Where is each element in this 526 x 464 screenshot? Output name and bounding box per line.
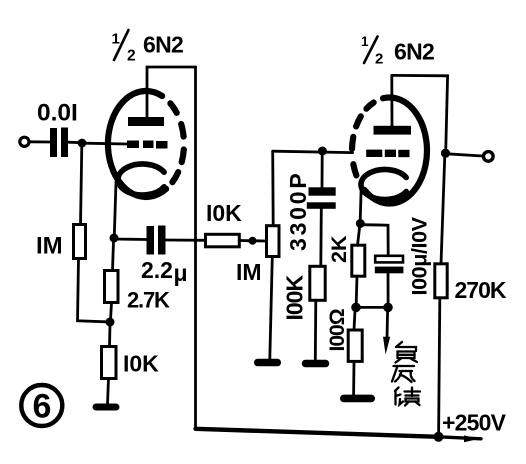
wire node F to R8	[354, 310, 355, 330]
svg-text:I00Ω: I00Ω	[326, 309, 349, 351]
svg-text:1: 1	[112, 31, 120, 48]
svg-text:IM: IM	[36, 233, 63, 260]
wire node A down to R 1M	[81, 146, 82, 225]
wire node E down to R9	[441, 155, 445, 264]
plate V2 lead	[390, 75, 393, 127]
svg-text:1: 1	[361, 34, 369, 49]
resistor R6 100K	[310, 266, 325, 300]
ground (R8)	[340, 395, 375, 403]
label fan (Chinese: feedback-reverse)	[392, 366, 415, 382]
resistor R9 270K	[435, 264, 447, 298]
wire cathode node to R7	[358, 226, 360, 246]
wire R2 to node B	[111, 303, 112, 321]
wire node to C2	[114, 238, 147, 241]
svg-text:270K: 270K	[455, 277, 507, 303]
cathode V1 lead	[114, 182, 116, 236]
rail arrowhead	[464, 435, 479, 442]
wire R9 to +250V rail	[439, 298, 440, 435]
svg-text:2.2: 2.2	[141, 257, 173, 283]
svg-text:I0K: I0K	[206, 200, 242, 226]
wire R5 top to grid wire	[271, 152, 274, 226]
wire node C to R5	[255, 239, 267, 242]
svg-text:I0K: I0K	[123, 351, 159, 377]
svg-text:2.7K: 2.7K	[127, 288, 170, 313]
label 2.2u	[141, 257, 188, 286]
wire C1 to node A	[68, 141, 79, 144]
grid V2 dashes	[366, 150, 409, 158]
label 1/2 6N2 (tube V2)	[361, 34, 434, 68]
wire R1 bottom	[78, 259, 107, 322]
wire plate V1 to B+ line	[147, 66, 196, 69]
figure number 6 (circled)	[21, 385, 62, 426]
wire C2 to R4	[166, 239, 207, 242]
wire node A to grid V1	[84, 142, 127, 146]
resistor R3 10K	[102, 347, 117, 379]
tube V2 envelope	[352, 98, 427, 204]
node G	[383, 303, 393, 313]
wire node B to R3	[108, 324, 111, 347]
svg-text:3300P: 3300P	[285, 170, 311, 251]
label kui (Chinese: feed)	[395, 388, 420, 406]
wire C4 to node G	[387, 273, 390, 303]
capacitor C4 100u/10V	[375, 256, 404, 274]
resistor R2 2.7K	[105, 271, 119, 303]
+250V rail	[196, 429, 439, 437]
wire node D to C3	[321, 152, 324, 188]
plate V1	[128, 117, 164, 126]
wire R7 to node F	[355, 276, 359, 304]
node +250V	[434, 432, 444, 442]
svg-text:+250V: +250V	[442, 410, 507, 436]
rail arrow tail	[439, 437, 482, 439]
cathode V2	[361, 170, 406, 200]
ground (R5)	[254, 359, 281, 367]
node A (grid junction)	[78, 139, 87, 148]
label fu (Chinese: negative)	[396, 342, 418, 363]
label 1/2 6N2 (tube V1)	[112, 30, 184, 65]
resistor R4 10K (coupling)	[206, 234, 240, 247]
node E (output)	[441, 149, 450, 158]
tube V1 envelope	[108, 91, 184, 197]
resistor R5 1M (grid leak V2)	[267, 226, 280, 257]
svg-text:6N2: 6N2	[394, 39, 434, 65]
grid V1 dashes	[127, 141, 168, 149]
feedback arrow	[383, 310, 390, 355]
wire output	[447, 154, 482, 156]
wire B+ vertical line	[194, 67, 197, 429]
svg-text:μ: μ	[174, 260, 188, 286]
svg-text:2: 2	[375, 51, 383, 68]
wire C3 to R6	[319, 209, 322, 267]
plate V2	[374, 126, 412, 135]
output terminal	[484, 152, 494, 162]
node cathode V1	[110, 234, 119, 243]
wire input to C1	[30, 140, 50, 143]
wire R8 to ground	[352, 361, 355, 394]
svg-text:2: 2	[127, 48, 136, 65]
wire R3 to ground	[108, 379, 109, 405]
cathode V1	[118, 164, 164, 195]
svg-text:I00μ/I0V: I00μ/I0V	[408, 216, 432, 295]
resistor R7 2K	[352, 245, 365, 276]
node B	[106, 318, 115, 327]
wire R4 to node C	[239, 239, 249, 242]
svg-text:I00K: I00K	[282, 275, 308, 321]
capacitor C2 2.2u	[147, 226, 166, 255]
ground (R6)	[302, 360, 329, 368]
svg-text:6: 6	[33, 388, 52, 426]
wire cathode node to R2	[113, 241, 114, 271]
ground (R3)	[93, 404, 120, 411]
node cathode V2	[356, 219, 365, 228]
node F	[351, 303, 361, 313]
capacitor C3 3300P	[307, 187, 336, 209]
wire plate V2 top	[392, 75, 448, 152]
resistor R8 100ohm	[348, 330, 362, 361]
node D (3300P tap)	[318, 147, 327, 156]
input terminal	[20, 137, 29, 146]
wire R6 to ground	[314, 300, 317, 360]
cathode V2 lead	[360, 187, 361, 221]
wire node F to node G	[356, 306, 388, 309]
plate V1 lead	[146, 67, 149, 119]
resistor R1 1M	[74, 225, 86, 259]
wire cathode node to C4	[362, 225, 389, 256]
svg-text:6N2: 6N2	[143, 32, 183, 58]
capacitor C1 0.01	[50, 128, 68, 158]
wire grid V2	[273, 151, 353, 152]
svg-text:IM: IM	[236, 259, 262, 285]
svg-text:0.0I: 0.0I	[37, 100, 78, 127]
node C	[249, 237, 257, 245]
svg-text:2K: 2K	[327, 235, 351, 263]
wire R5 bottom to ground	[270, 257, 273, 359]
